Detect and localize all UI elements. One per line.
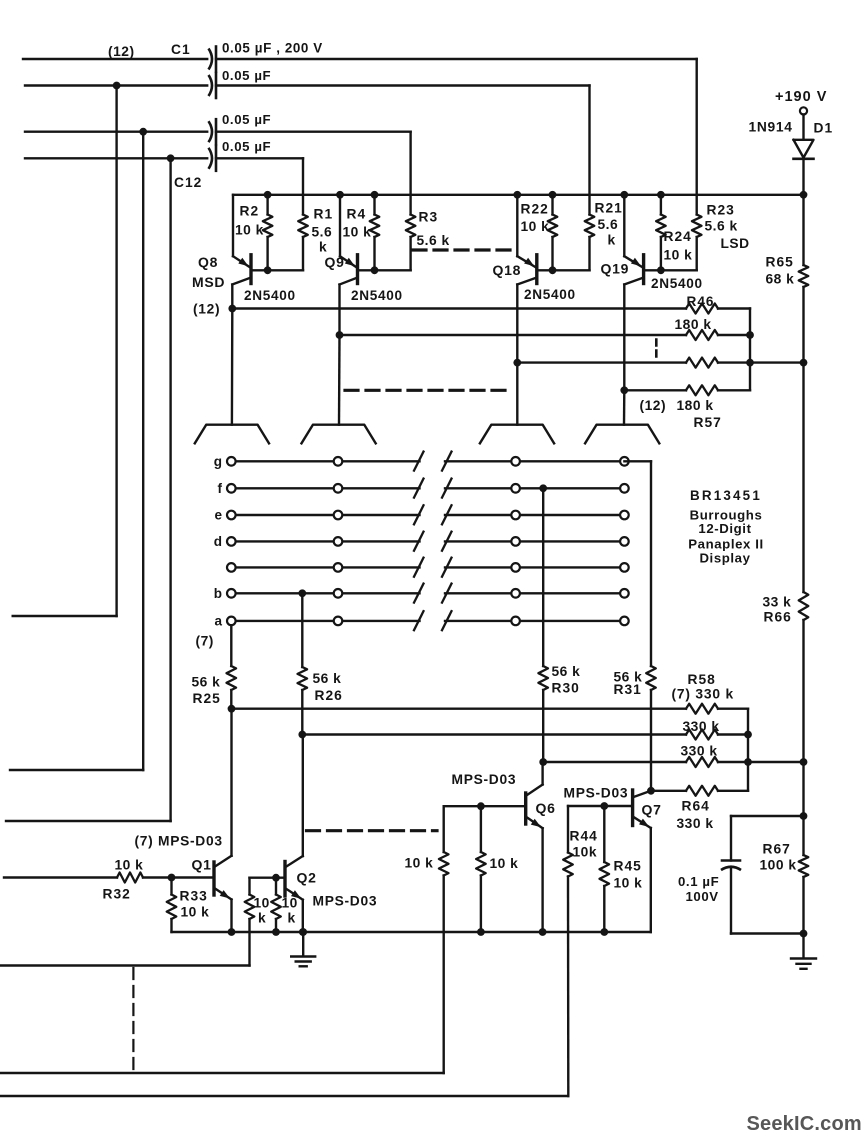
resistor 330k (segment b) bbox=[683, 719, 752, 740]
wire segment row g bbox=[231, 452, 624, 471]
svg-text:Q9: Q9 bbox=[325, 254, 345, 270]
svg-text:68 k: 68 k bbox=[766, 272, 795, 287]
wire digit 12 anode stem bbox=[623, 390, 626, 424]
svg-text:56 k: 56 k bbox=[552, 664, 581, 679]
svg-text:10 k: 10 k bbox=[405, 856, 434, 871]
svg-text:(7): (7) bbox=[196, 634, 214, 649]
capacitor C3 bbox=[209, 112, 272, 144]
resistor 180k (digit 2) bbox=[686, 330, 754, 340]
wire segment-f sum line bbox=[543, 761, 686, 763]
svg-text:0.05 µF: 0.05 µF bbox=[222, 68, 271, 83]
wire input bus 4 bbox=[0, 1072, 444, 1074]
resistor R67 100k bbox=[760, 816, 809, 937]
wire input bus 3 bbox=[0, 964, 250, 966]
wire input bus 5 bbox=[0, 1095, 568, 1097]
svg-text:0.05 µF , 200 V: 0.05 µF , 200 V bbox=[222, 41, 323, 56]
wire input line 2 bbox=[25, 82, 207, 90]
wire C3 output to R3 top bbox=[216, 132, 411, 215]
svg-text:R26: R26 bbox=[315, 688, 343, 703]
junction segment b / R26 bbox=[298, 589, 306, 597]
junction segment f / R30 bbox=[539, 484, 547, 492]
svg-text:C1: C1 bbox=[171, 42, 191, 57]
svg-text:10: 10 bbox=[282, 896, 298, 911]
capacitor 0.1uF 100V bbox=[678, 816, 804, 934]
resistor 10k Q6 series bbox=[405, 806, 449, 1073]
resistor R1 5.6k bbox=[298, 207, 333, 271]
wire segment row e bbox=[231, 505, 624, 524]
svg-text:R22: R22 bbox=[521, 202, 549, 217]
resistor R31 56k bbox=[614, 666, 656, 795]
svg-text:33 k: 33 k bbox=[763, 595, 792, 610]
svg-text:(12): (12) bbox=[108, 44, 135, 59]
resistor R65 68k bbox=[766, 195, 809, 363]
wire Q6 base bbox=[444, 805, 526, 807]
svg-text:(7) MPS-D03: (7) MPS-D03 bbox=[135, 834, 223, 849]
wire Q19 base node bbox=[644, 269, 697, 271]
svg-text:1N914: 1N914 bbox=[749, 120, 793, 135]
svg-text:k: k bbox=[608, 233, 616, 248]
resistor 330k (segment f) bbox=[681, 744, 808, 768]
capacitor C2 bbox=[209, 68, 272, 98]
wire C1 output to R23 top bbox=[216, 59, 697, 215]
resistor R32 10k bbox=[4, 858, 175, 902]
svg-text:5.6 k: 5.6 k bbox=[705, 219, 738, 234]
wire Q1 base bbox=[172, 876, 215, 878]
dashed wire omitted input stages bbox=[132, 968, 134, 1071]
svg-text:MSD: MSD bbox=[192, 274, 225, 290]
resistor R58 330k bbox=[672, 672, 749, 791]
wire +190V rail bbox=[233, 191, 807, 199]
wire Q8 base node bbox=[251, 269, 303, 271]
svg-text:Q1: Q1 bbox=[192, 857, 212, 873]
resistor R33 10k bbox=[167, 878, 210, 933]
node segment row e pins bbox=[214, 508, 628, 523]
resistor R30 56k bbox=[538, 488, 580, 766]
svg-text:R66: R66 bbox=[764, 610, 792, 625]
svg-text:k: k bbox=[319, 240, 327, 255]
wire segment row b bbox=[231, 584, 624, 603]
svg-text:SeekIC.com: SeekIC.com bbox=[747, 1113, 862, 1135]
svg-text:R57: R57 bbox=[694, 415, 722, 430]
wire C12 output to R1 top bbox=[216, 158, 303, 214]
resistor R25 56k bbox=[192, 625, 237, 712]
resistor R57 180k bbox=[640, 385, 751, 430]
label (7) segment count bbox=[196, 634, 214, 649]
svg-text:56 k: 56 k bbox=[192, 675, 221, 690]
svg-text:2N5400: 2N5400 bbox=[651, 276, 703, 291]
svg-text:MPS-D03: MPS-D03 bbox=[564, 786, 629, 801]
svg-text:10 k: 10 k bbox=[614, 876, 643, 891]
svg-text:330 k: 330 k bbox=[683, 719, 720, 734]
svg-text:5.6 k: 5.6 k bbox=[417, 233, 450, 248]
svg-text:R30: R30 bbox=[552, 681, 580, 696]
svg-text:b: b bbox=[214, 586, 222, 601]
node segment row a pins bbox=[214, 613, 628, 628]
wire left bus C (line4 branch) bbox=[6, 158, 171, 821]
svg-text:k: k bbox=[258, 911, 266, 926]
svg-text:(12): (12) bbox=[640, 398, 667, 413]
svg-text:R24: R24 bbox=[664, 229, 692, 244]
svg-text:Q8: Q8 bbox=[198, 254, 218, 270]
svg-text:R25: R25 bbox=[193, 691, 221, 706]
wire input line 3 bbox=[25, 128, 207, 136]
node segment row g pins bbox=[214, 454, 629, 469]
svg-text:180 k: 180 k bbox=[675, 317, 712, 332]
svg-text:Q6: Q6 bbox=[536, 800, 556, 816]
resistor 180k (digit 11) bbox=[686, 358, 807, 368]
svg-text:a: a bbox=[214, 613, 222, 628]
display digit 1 anode bbox=[195, 425, 269, 444]
resistor 10k Q2 shunt bbox=[271, 874, 298, 936]
wire left bus B (line3 branch) bbox=[10, 132, 143, 770]
svg-text:330 k: 330 k bbox=[681, 744, 718, 759]
svg-text:MPS-D03: MPS-D03 bbox=[452, 772, 517, 787]
svg-text:10 k: 10 k bbox=[181, 905, 210, 920]
svg-text:e: e bbox=[214, 508, 222, 523]
svg-text:100V: 100V bbox=[686, 889, 719, 904]
label +190 V supply bbox=[775, 89, 827, 105]
svg-text:+190 V: +190 V bbox=[775, 89, 827, 105]
svg-text:0.05 µF: 0.05 µF bbox=[222, 112, 271, 127]
wire Q8 collector bus (12 digits) bbox=[232, 307, 686, 309]
svg-text:R44: R44 bbox=[570, 829, 598, 844]
svg-text:R46: R46 bbox=[687, 294, 715, 309]
resistor R24 10k bbox=[656, 195, 692, 274]
svg-text:10 k: 10 k bbox=[235, 223, 264, 238]
svg-text:(12): (12) bbox=[193, 302, 220, 317]
resistor R23 5.6k bbox=[692, 203, 750, 271]
transistor Q9 2N5400 bbox=[325, 195, 403, 339]
resistor R44 10k bbox=[563, 806, 598, 1096]
svg-text:10 k: 10 k bbox=[664, 248, 693, 263]
dashed wire omitted anode resistors bbox=[655, 340, 658, 358]
svg-text:5.6: 5.6 bbox=[598, 217, 619, 232]
transistor Q7 MPS-D03 bbox=[564, 786, 662, 933]
svg-text:2N5400: 2N5400 bbox=[524, 287, 576, 302]
wire input line 4 bbox=[25, 154, 207, 162]
svg-text:R2: R2 bbox=[240, 204, 260, 219]
svg-text:R65: R65 bbox=[766, 255, 794, 270]
wire segment g to R31 bbox=[624, 461, 651, 666]
svg-text:0.1 µF: 0.1 µF bbox=[678, 874, 719, 889]
wire segment row a bbox=[231, 611, 624, 630]
label display type bbox=[688, 488, 764, 566]
svg-text:10: 10 bbox=[254, 896, 270, 911]
wire Q18 collector bus bbox=[517, 361, 686, 363]
display digit 11 anode bbox=[480, 425, 554, 444]
svg-text:d: d bbox=[214, 534, 222, 549]
svg-text:g: g bbox=[214, 454, 222, 469]
wire ground bus bbox=[172, 931, 651, 933]
node segment row b pins bbox=[214, 586, 629, 601]
resistor R66 33k bbox=[763, 363, 809, 762]
svg-text:180 k: 180 k bbox=[677, 398, 714, 413]
svg-text:Q7: Q7 bbox=[642, 802, 662, 818]
resistor R64 330k bbox=[677, 786, 749, 831]
transistor Q1 MPS-D03 bbox=[135, 709, 236, 936]
wire digit 11 anode stem bbox=[516, 363, 518, 425]
wire Q19 collector bus bbox=[624, 389, 686, 391]
svg-text:R21: R21 bbox=[595, 201, 623, 216]
svg-text:R3: R3 bbox=[419, 210, 439, 225]
svg-text:10 k: 10 k bbox=[521, 219, 550, 234]
svg-text:R4: R4 bbox=[347, 207, 367, 222]
svg-text:2N5400: 2N5400 bbox=[351, 288, 403, 303]
wire digit 1 anode stem bbox=[231, 309, 234, 425]
transistor Q18 2N5400 bbox=[493, 195, 576, 367]
svg-text:R31: R31 bbox=[614, 682, 642, 697]
svg-text:C12: C12 bbox=[174, 175, 202, 190]
svg-text:56 k: 56 k bbox=[313, 671, 342, 686]
svg-text:R23: R23 bbox=[707, 203, 735, 218]
wire C2 output to R21 top bbox=[216, 86, 590, 215]
svg-text:(7) 330 k: (7) 330 k bbox=[672, 687, 734, 702]
svg-text:100 k: 100 k bbox=[760, 858, 797, 873]
wire segment-b sum line bbox=[302, 733, 686, 735]
svg-text:R32: R32 bbox=[103, 887, 131, 902]
svg-text:0.05 µF: 0.05 µF bbox=[222, 139, 271, 154]
svg-text:10 k: 10 k bbox=[115, 858, 144, 873]
svg-text:R64: R64 bbox=[682, 799, 710, 814]
transistor Q6 MPS-D03 bbox=[452, 762, 556, 936]
wire left bus A (line2 branch) bbox=[13, 86, 117, 617]
svg-text:5.6: 5.6 bbox=[312, 225, 333, 240]
watermark bbox=[747, 1113, 862, 1135]
wire right column to R67 bbox=[800, 762, 808, 820]
svg-text:MPS-D03: MPS-D03 bbox=[313, 894, 378, 909]
display digit 2 anode bbox=[302, 425, 376, 444]
svg-text:R67: R67 bbox=[763, 842, 791, 857]
svg-text:Q2: Q2 bbox=[297, 870, 317, 886]
svg-text:R45: R45 bbox=[614, 859, 642, 874]
node segment row d pins bbox=[214, 534, 629, 549]
svg-text:BR13451: BR13451 bbox=[690, 488, 762, 503]
label (12) line count bbox=[108, 44, 135, 59]
svg-text:10 k: 10 k bbox=[490, 856, 519, 871]
resistor R21 5.6k bbox=[585, 201, 623, 271]
wire segment row c bbox=[231, 558, 624, 577]
resistor R2 10k bbox=[235, 195, 272, 274]
capacitor C1 bbox=[171, 41, 323, 72]
wire Q9 collector bus bbox=[340, 334, 687, 336]
wire Q2 base bbox=[250, 877, 286, 879]
display digit 12 anode bbox=[585, 425, 659, 444]
wire Q9 base node bbox=[358, 269, 411, 271]
resistor 10k Q6 shunt bbox=[476, 802, 518, 936]
wire input line 1 (digit drive, 12 lines) bbox=[23, 58, 207, 60]
svg-text:Q18: Q18 bbox=[493, 262, 522, 278]
node +190V terminal bbox=[800, 107, 807, 139]
ground (input stages) bbox=[291, 928, 315, 966]
wire Q7 base bbox=[568, 805, 633, 807]
svg-text:R33: R33 bbox=[180, 889, 208, 904]
svg-text:12-Digit: 12-Digit bbox=[698, 521, 751, 536]
dashed wire omitted digit buses bbox=[345, 389, 510, 392]
transistor Q8 2N5400 (MSD driver) bbox=[192, 195, 296, 317]
diode D1 1N914 bbox=[749, 120, 834, 195]
svg-text:330 k: 330 k bbox=[677, 816, 714, 831]
resistor R46 180k bbox=[675, 294, 751, 390]
wire segment-a sum line bbox=[232, 708, 687, 710]
resistor R3 5.6k bbox=[406, 210, 450, 271]
resistor 10k Q2 series bbox=[245, 878, 270, 966]
ground (output filter) bbox=[791, 934, 816, 969]
svg-text:Display: Display bbox=[699, 551, 750, 566]
svg-text:R58: R58 bbox=[688, 672, 716, 687]
resistor R4 10k bbox=[343, 195, 380, 274]
svg-text:k: k bbox=[288, 911, 296, 926]
svg-text:2N5400: 2N5400 bbox=[244, 288, 296, 303]
resistor R22 10k bbox=[521, 195, 558, 274]
svg-text:Q19: Q19 bbox=[601, 261, 630, 277]
resistor R26 56k bbox=[298, 593, 343, 738]
svg-text:LSD: LSD bbox=[721, 236, 750, 251]
transistor Q19 2N5400 (LSD driver) bbox=[601, 195, 703, 394]
node segment row f pins bbox=[218, 481, 629, 496]
svg-text:D1: D1 bbox=[814, 121, 834, 136]
wire segment-g sum line bbox=[651, 790, 686, 792]
svg-text:f: f bbox=[218, 481, 223, 496]
svg-text:Panaplex II: Panaplex II bbox=[688, 537, 764, 552]
dashed wire omitted driver stages (Q2 to Q6) bbox=[307, 829, 438, 832]
capacitor C12 bbox=[174, 139, 271, 190]
transistor Q2 MPS-D03 bbox=[285, 735, 377, 936]
svg-text:10k: 10k bbox=[573, 845, 598, 860]
node segment row c pins bbox=[227, 563, 629, 572]
wire digit 2 anode stem bbox=[338, 335, 341, 425]
wire segment row f bbox=[231, 479, 624, 498]
wire segment row d bbox=[231, 532, 624, 551]
wire Q18 base node bbox=[537, 269, 590, 271]
svg-text:R1: R1 bbox=[314, 207, 334, 222]
resistor R45 10k bbox=[600, 802, 643, 936]
svg-text:10 k: 10 k bbox=[343, 225, 372, 240]
dashed wire omitted digit stages (base row) bbox=[413, 248, 517, 251]
